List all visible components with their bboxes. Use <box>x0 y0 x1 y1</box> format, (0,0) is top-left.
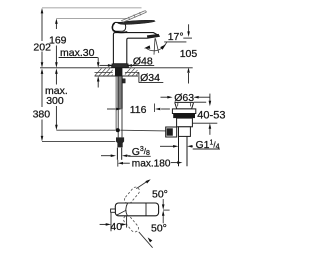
17 degree annotation <box>146 38 167 54</box>
max.300 bottom ref line <box>56 129 115 131</box>
dimension line 169/max.300 <box>55 18 58 130</box>
svg-text:202: 202 <box>33 42 51 54</box>
G3/8 arrows <box>101 154 131 157</box>
lever knuckle <box>112 22 125 31</box>
waste lower body <box>179 127 191 137</box>
shank through deck <box>115 68 122 76</box>
svg-text:17°: 17° <box>168 31 184 43</box>
svg-text:50°: 50° <box>151 223 167 235</box>
plan lever tab <box>111 209 116 212</box>
svg-text:380: 380 <box>33 108 51 120</box>
phantom lever up (plan) <box>123 186 141 205</box>
base flange <box>112 64 129 68</box>
svg-text:40: 40 <box>110 221 122 233</box>
aerator outlet <box>147 34 159 38</box>
max.30 underline <box>59 57 98 59</box>
O48 underline <box>129 65 154 67</box>
lever arm closed <box>118 20 156 24</box>
50deg lower annotation <box>139 232 153 248</box>
max.180 ext tick <box>117 160 119 167</box>
extension line top 202 ref <box>42 7 142 9</box>
connection nut <box>116 137 124 147</box>
fixing nut <box>122 79 125 83</box>
svg-text:Ø63: Ø63 <box>174 92 194 104</box>
lever tip vertical dim <box>162 199 170 223</box>
40 dimension (plan) <box>100 213 127 231</box>
O63 arrows <box>161 96 210 99</box>
plan view lever solid <box>115 203 158 216</box>
pop-up rod vertical <box>115 76 117 130</box>
dimension line 202/380 <box>41 8 44 142</box>
waste lip band <box>172 109 195 114</box>
waste flange dome <box>175 102 193 109</box>
plan lever diagonal <box>116 210 126 215</box>
svg-text:50°: 50° <box>152 188 168 200</box>
svg-text:169: 169 <box>49 34 67 46</box>
pop-up rod junction <box>116 128 120 132</box>
svg-text:105: 105 <box>180 48 198 60</box>
deck bottom <box>95 75 139 77</box>
380 bottom ref line <box>42 140 115 142</box>
extension line 169 ref <box>56 17 127 19</box>
pipe tails <box>117 148 121 160</box>
max.180 arrows <box>118 161 183 164</box>
knuckle left crescent <box>112 23 114 31</box>
50deg upper annotation <box>136 180 149 188</box>
waste tailpipe <box>179 136 188 166</box>
G1 1/4 arrows <box>160 145 193 148</box>
plan lever front cap division <box>145 203 147 216</box>
pop-up rod horizontal <box>120 129 166 132</box>
faucet body <box>113 33 159 64</box>
svg-text:300: 300 <box>46 95 64 107</box>
phantom lever down (plan) <box>122 214 140 233</box>
105 dimension <box>183 24 192 83</box>
deck inner line <box>95 71 139 73</box>
svg-text:max.180: max.180 <box>132 158 171 169</box>
deck hatching <box>95 68 139 75</box>
svg-text:116: 116 <box>130 104 147 116</box>
O48 dim arrows <box>99 64 136 67</box>
countertop surface reference line <box>40 67 193 69</box>
svg-text:40-53: 40-53 <box>197 110 225 122</box>
max.30 arrows <box>97 58 100 88</box>
knuckle shadow arc <box>113 30 128 32</box>
raised lever phantom <box>121 11 146 22</box>
deck hole clearance <box>113 68 125 75</box>
dome inner ticks <box>177 103 179 107</box>
waste side port <box>166 127 177 137</box>
waste upper body <box>177 118 193 127</box>
plan lever joint curve <box>126 203 128 216</box>
40-53 dimension <box>193 94 218 135</box>
waste seal ring <box>173 114 195 119</box>
supply pipe <box>118 76 122 109</box>
